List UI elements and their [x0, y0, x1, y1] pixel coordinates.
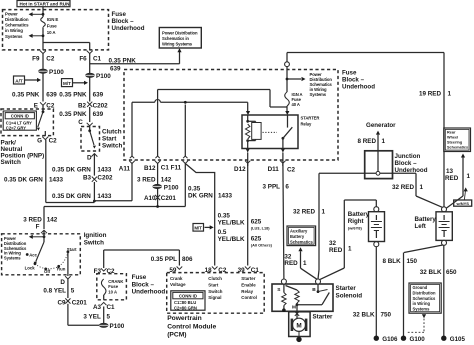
- svg-text:Junction: Junction: [395, 153, 421, 160]
- svg-text:A10: A10: [144, 195, 156, 202]
- svg-text:1: 1: [322, 209, 326, 216]
- svg-text:RED: RED: [445, 175, 459, 182]
- svg-text:Off: Off: [44, 269, 51, 274]
- svg-text:Underhood: Underhood: [132, 289, 166, 296]
- svg-text:RED: RED: [284, 260, 298, 267]
- svg-text:10 A: 10 A: [108, 289, 117, 294]
- svg-text:Relay: Relay: [301, 121, 312, 126]
- svg-text:Run: Run: [57, 267, 66, 272]
- svg-text:650: 650: [446, 269, 457, 276]
- svg-text:Voltage: Voltage: [170, 282, 186, 287]
- svg-text:Lock: Lock: [25, 265, 36, 270]
- svg-text:CONN ID: CONN ID: [179, 294, 197, 299]
- svg-text:Right: Right: [348, 218, 364, 225]
- svg-text:P100: P100: [164, 184, 179, 191]
- svg-text:142: 142: [47, 217, 58, 224]
- svg-text:D: D: [60, 279, 65, 286]
- svg-text:C2: C2: [49, 138, 58, 145]
- svg-text:B2: B2: [78, 103, 87, 110]
- svg-text:750: 750: [381, 312, 392, 319]
- svg-text:1433: 1433: [49, 177, 64, 184]
- svg-text:Power: Power: [5, 11, 18, 16]
- svg-text:DK GRN: DK GRN: [188, 192, 213, 199]
- svg-text:Underhood: Underhood: [342, 83, 375, 90]
- svg-text:0.35 PNK: 0.35 PNK: [59, 111, 87, 118]
- svg-text:Power Distribution: Power Distribution: [162, 30, 198, 35]
- svg-text:Switch: Switch: [84, 239, 104, 246]
- svg-text:0.35: 0.35: [218, 213, 231, 220]
- svg-text:Switch: Switch: [1, 159, 21, 166]
- svg-text:Enable: Enable: [241, 282, 256, 287]
- svg-text:639: 639: [46, 92, 57, 99]
- svg-text:Ground: Ground: [413, 285, 428, 290]
- svg-text:Rear: Rear: [447, 131, 456, 135]
- svg-text:C201: C201: [72, 300, 88, 307]
- svg-text:0.35 DK GRN: 0.35 DK GRN: [52, 193, 91, 200]
- svg-text:(LU3, L18): (LU3, L18): [251, 225, 271, 230]
- svg-text:Start: Start: [102, 135, 117, 142]
- svg-text:Crank: Crank: [170, 276, 183, 281]
- svg-text:13: 13: [446, 168, 454, 175]
- svg-text:19 RED: 19 RED: [419, 91, 442, 98]
- svg-text:Battery: Battery: [348, 211, 370, 218]
- svg-text:142: 142: [161, 177, 172, 184]
- svg-text:3 YEL: 3 YEL: [83, 314, 101, 321]
- svg-text:F9: F9: [32, 55, 40, 62]
- svg-text:1: 1: [348, 246, 352, 253]
- svg-text:A11: A11: [119, 166, 131, 173]
- svg-text:10 A: 10 A: [47, 30, 57, 35]
- svg-text:A/T: A/T: [15, 78, 23, 83]
- svg-text:639: 639: [110, 65, 121, 72]
- svg-text:C1: C1: [93, 55, 102, 62]
- svg-text:Fuse: Fuse: [132, 274, 147, 281]
- svg-text:Starter: Starter: [336, 285, 357, 292]
- svg-text:C201: C201: [161, 195, 177, 202]
- svg-text:Solenoid: Solenoid: [336, 292, 363, 299]
- svg-text:Clutch: Clutch: [102, 128, 122, 135]
- svg-text:Switch: Switch: [102, 142, 122, 149]
- svg-text:Starter: Starter: [241, 276, 255, 281]
- svg-text:Control Module: Control Module: [167, 323, 216, 330]
- svg-text:Powertrain: Powertrain: [167, 315, 202, 322]
- svg-text:M/T: M/T: [194, 226, 202, 231]
- svg-text:F3: F3: [94, 268, 102, 275]
- svg-text:0.35 PNK: 0.35 PNK: [109, 57, 137, 64]
- svg-text:in Wiring: in Wiring: [5, 28, 23, 33]
- svg-text:YEL/BLK: YEL/BLK: [218, 236, 245, 243]
- svg-text:5: 5: [71, 287, 75, 294]
- svg-text:CONN ID: CONN ID: [11, 114, 29, 119]
- svg-text:C202: C202: [93, 103, 109, 110]
- svg-text:G: G: [37, 138, 42, 145]
- svg-text:Wheel: Wheel: [447, 136, 458, 140]
- svg-text:0.35 DK GRN: 0.35 DK GRN: [4, 177, 43, 184]
- svg-text:B: B: [312, 287, 316, 293]
- svg-text:G105: G105: [450, 336, 466, 343]
- svg-text:1: 1: [382, 138, 386, 145]
- svg-text:IGN E: IGN E: [47, 17, 59, 22]
- svg-text:D: D: [87, 155, 92, 162]
- svg-text:C2: C2: [107, 268, 116, 275]
- svg-text:G100: G100: [410, 336, 426, 343]
- svg-text:0.35 PNK: 0.35 PNK: [59, 92, 87, 99]
- svg-text:M/T: M/T: [63, 81, 71, 86]
- svg-text:P100: P100: [96, 73, 111, 80]
- svg-text:0.35: 0.35: [188, 185, 201, 192]
- svg-text:M: M: [296, 323, 301, 330]
- svg-text:(w/6Y8): (w/6Y8): [348, 225, 363, 230]
- svg-text:150: 150: [407, 258, 418, 265]
- svg-text:Schematics: Schematics: [413, 296, 436, 301]
- svg-text:C2: C2: [287, 167, 296, 174]
- svg-text:0.35 DK GRN: 0.35 DK GRN: [52, 167, 91, 174]
- svg-text:Start: Start: [67, 247, 77, 252]
- svg-text:C1 F11: C1 F11: [161, 165, 182, 172]
- svg-text:32 RED: 32 RED: [392, 184, 415, 191]
- svg-text:Block –: Block –: [342, 76, 365, 83]
- svg-text:806: 806: [182, 256, 193, 263]
- svg-text:32 RED: 32 RED: [293, 209, 316, 216]
- svg-text:Generator: Generator: [366, 122, 396, 129]
- svg-text:Acc: Acc: [29, 252, 37, 257]
- svg-text:Schematics in: Schematics in: [162, 36, 189, 41]
- svg-text:Systems: Systems: [5, 34, 23, 39]
- svg-text:in Wiring: in Wiring: [413, 301, 431, 306]
- svg-text:Switch: Switch: [208, 289, 222, 294]
- svg-text:C2=80 GRN: C2=80 GRN: [174, 305, 197, 310]
- svg-text:Left: Left: [415, 223, 426, 230]
- svg-text:Start: Start: [208, 282, 219, 287]
- svg-text:w/NYS: w/NYS: [455, 201, 469, 206]
- svg-text:Ignition: Ignition: [84, 232, 107, 239]
- svg-text:Distribution: Distribution: [5, 17, 29, 22]
- svg-text:Wiring Systems: Wiring Systems: [162, 42, 193, 47]
- svg-text:1: 1: [448, 91, 452, 98]
- svg-text:32: 32: [329, 240, 337, 247]
- svg-text:B12: B12: [144, 165, 156, 172]
- svg-text:RED: RED: [329, 247, 343, 254]
- svg-text:Schematics: Schematics: [5, 23, 29, 28]
- svg-text:32 BLK: 32 BLK: [420, 269, 442, 276]
- svg-text:6: 6: [285, 183, 289, 190]
- svg-text:0.35 PPL: 0.35 PPL: [151, 256, 177, 263]
- svg-text:Starter: Starter: [313, 313, 334, 320]
- svg-text:8 BLK: 8 BLK: [383, 258, 402, 265]
- svg-text:F6: F6: [79, 55, 87, 62]
- svg-text:Relay: Relay: [241, 289, 253, 294]
- svg-text:40 A: 40 A: [292, 102, 300, 107]
- svg-text:C9: C9: [57, 300, 66, 307]
- svg-text:B3: B3: [83, 175, 92, 182]
- svg-text:Systems: Systems: [413, 307, 431, 312]
- svg-text:Fuse: Fuse: [342, 69, 357, 76]
- svg-text:D11: D11: [268, 166, 280, 173]
- svg-text:0.8 YEL: 0.8 YEL: [43, 287, 66, 294]
- svg-text:3 RED: 3 RED: [23, 217, 42, 224]
- svg-text:Clutch: Clutch: [208, 276, 222, 281]
- svg-text:32 BLK: 32 BLK: [353, 312, 375, 319]
- svg-text:P100: P100: [49, 69, 64, 76]
- svg-text:Distribution: Distribution: [413, 290, 436, 295]
- svg-text:639: 639: [93, 111, 104, 118]
- svg-text:1433: 1433: [97, 193, 112, 200]
- svg-text:3 PPL: 3 PPL: [263, 183, 281, 190]
- svg-text:1: 1: [467, 173, 471, 180]
- svg-text:(All Others): (All Others): [251, 243, 273, 248]
- svg-text:(PCM): (PCM): [167, 332, 186, 339]
- svg-text:0.5: 0.5: [218, 229, 227, 236]
- svg-text:D12: D12: [234, 166, 246, 173]
- svg-text:G106: G106: [382, 336, 398, 343]
- svg-text:Battery: Battery: [415, 216, 437, 223]
- svg-text:Signal: Signal: [208, 295, 221, 300]
- svg-text:Systems: Systems: [310, 92, 327, 97]
- svg-text:Block –: Block –: [112, 18, 135, 25]
- svg-text:C2=7 GRY: C2=7 GRY: [6, 126, 26, 131]
- svg-text:1433: 1433: [97, 167, 112, 174]
- svg-text:Block –: Block –: [132, 281, 155, 288]
- svg-text:C1: C1: [107, 304, 116, 311]
- svg-text:Control: Control: [241, 295, 257, 300]
- svg-text:C: C: [78, 119, 83, 126]
- svg-text:5: 5: [107, 314, 111, 321]
- svg-text:C202: C202: [97, 175, 113, 182]
- svg-text:Auxiliary: Auxiliary: [290, 229, 308, 234]
- svg-text:1: 1: [420, 184, 424, 191]
- svg-text:Fuse: Fuse: [112, 11, 127, 18]
- svg-text:STARTER: STARTER: [301, 116, 320, 121]
- svg-text:625: 625: [251, 218, 262, 225]
- svg-text:C2: C2: [46, 55, 55, 62]
- svg-text:YEL/BLK: YEL/BLK: [218, 220, 245, 227]
- svg-text:639: 639: [93, 92, 104, 99]
- svg-text:A3: A3: [93, 304, 102, 311]
- svg-text:1: 1: [303, 260, 307, 267]
- svg-text:Block –: Block –: [395, 160, 418, 167]
- svg-text:1433: 1433: [218, 192, 233, 199]
- svg-text:0.35 PNK: 0.35 PNK: [12, 92, 40, 99]
- svg-text:3 RED: 3 RED: [137, 177, 156, 184]
- svg-text:Schematics: Schematics: [447, 145, 468, 149]
- svg-text:Underhood: Underhood: [112, 25, 145, 32]
- svg-text:Battery: Battery: [290, 234, 305, 239]
- svg-text:Systems: Systems: [4, 256, 21, 261]
- svg-text:M: M: [292, 305, 296, 311]
- svg-text:Hot in START and RUN: Hot in START and RUN: [20, 2, 71, 7]
- svg-text:625: 625: [251, 236, 262, 243]
- svg-text:F: F: [36, 224, 40, 231]
- svg-text:8 RED: 8 RED: [357, 138, 376, 145]
- svg-text:Steering: Steering: [447, 140, 463, 144]
- svg-text:Schematics: Schematics: [290, 239, 313, 244]
- svg-text:Fuse: Fuse: [47, 24, 58, 29]
- svg-text:P100: P100: [110, 323, 125, 330]
